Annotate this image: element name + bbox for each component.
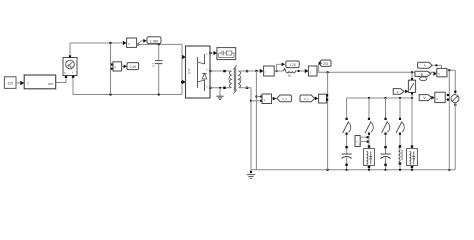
display D2 [127,63,139,70]
svg-text:120: 120 [7,81,13,85]
wire M4 to display D3 [274,62,285,72]
breaker B3a [382,118,390,147]
vertical wire VC feeder to bottom bus [327,72,329,170]
breaker column 4 wire [399,98,401,118]
breaker B2a [365,118,373,147]
wire secondary bottom down [239,87,263,170]
column 5 wire from breaker block U6 [411,98,413,147]
svg-text:Ld: Ld [358,142,362,146]
DC bus vertical wire [110,43,112,95]
breaker B4a [396,118,404,146]
vertical wire right column 2 with AC source [451,70,459,170]
wire U4 output to right columns [447,69,455,71]
ground G1 [216,88,223,100]
svg-text:C1: C1 [152,63,156,67]
ground G2 [247,170,255,179]
wire top bus to IGBT gate [137,43,186,94]
svg-text:V_L: V_L [304,97,310,101]
wire secondary top to M4 [239,69,264,73]
svg-text:V_L: V_L [282,97,288,101]
voltage measurement M2 [111,62,122,71]
load capacitor column 1 [342,146,352,171]
wire source S1 top to top bus [70,41,127,56]
from tag G3 [393,89,404,95]
svg-text:g m: g m [187,68,191,74]
feeder wire M5 to right network [317,71,437,73]
wire G3 to breaker block U6 [404,90,409,94]
IGBT block U1 [186,46,211,98]
svg-text:RL: RL [288,74,292,78]
from tag G2 [300,95,315,102]
svg-text:v: v [128,42,130,46]
wire M1 to display D1 [137,39,147,46]
wire M2 to display D2 [122,65,127,69]
load RLC box column 5 [407,145,418,171]
svg-text:out: out [48,82,53,86]
snubber block U2 [217,48,236,60]
wire U1 to transformer primary bottom [209,87,231,89]
wire B1 output to source S1 input [56,76,68,83]
load bus wire [347,97,414,99]
from tag T3 [419,95,431,101]
svg-text:201: 201 [323,62,329,66]
constant block K1 [4,77,16,89]
current measurement M5 [308,66,317,76]
subsystem block B1 [24,75,56,89]
transformer T1 [228,65,242,94]
svg-text:0.49: 0.49 [130,65,137,69]
wire M3 to goto tag G1 [272,97,277,101]
load capacitor column 3 [381,146,391,171]
controlled voltage source S1 [63,55,77,75]
wire G2 to source block U3 [315,97,318,101]
wire source S1 bottom to bottom bus [72,76,182,96]
load RLC box column 2 [358,142,374,171]
capacitor C1 branch [152,44,163,94]
load inductor column 4 [398,145,402,171]
goto tag G1 [277,95,292,102]
svg-text:c: c [397,90,399,94]
from tag T2 on feeder [415,71,437,81]
controlled source block U3 [319,94,329,103]
bottom bus wire [251,169,455,171]
svg-text:v: v [114,66,116,70]
voltage measurement M1 [127,38,137,47]
breaker B1a [343,118,351,147]
breaker column 2 wire [368,98,370,118]
wire K1 to B1 [16,81,24,86]
goto tag T1 [418,62,433,68]
voltage measurement M3 [262,94,272,104]
vertical wire right column 1 [448,70,450,170]
svg-text:1: 1 [27,82,29,86]
series RL branch L1 [277,68,309,77]
display D3 [286,61,299,68]
wire M5 to display D4 [317,61,322,71]
display D4 [321,60,331,66]
svg-text:1.389: 1.389 [150,39,159,43]
measurement block U4 [437,68,447,76]
breaker control block [355,136,369,147]
wire U1 to snubber U2 [209,51,217,55]
svg-text:A: A [424,64,426,68]
controlled source block U5 [435,92,450,102]
breaker column 3 wire [385,98,387,118]
wire U1 to transformer primary top [209,70,231,72]
current measurement M4 [264,66,275,76]
svg-text:+: + [72,71,74,75]
display D1 [147,37,161,44]
breaker column 1 wire [346,98,348,118]
svg-text:1.25: 1.25 [289,63,295,67]
main breaker block U6 [408,72,415,98]
wire T1 to block U4 [432,64,441,68]
wire T3 to block U5 [431,96,434,100]
vertical wire VA secondary top to bottom bus [255,71,262,170]
